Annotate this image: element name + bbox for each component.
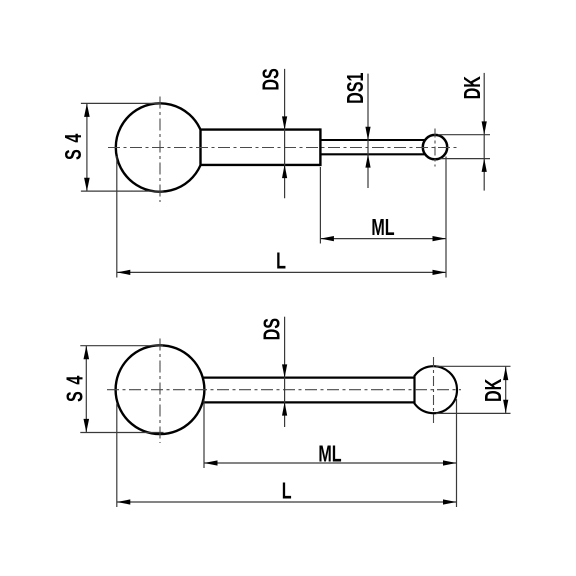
svg-text:DS: DS: [260, 318, 285, 340]
svg-text:DS: DS: [259, 68, 284, 90]
svg-text:ML: ML: [371, 216, 394, 241]
svg-text:L: L: [276, 249, 286, 274]
dimension DS1 (top figure): [343, 73, 370, 188]
svg-text:DS1: DS1: [343, 73, 368, 104]
tip ball DK (top figure): [423, 135, 447, 159]
ball S4 (top figure, clipped circle with flat at stem): [116, 103, 201, 191]
dimension DK (bottom figure): [436, 366, 511, 413]
dimension ML (top figure): [320, 157, 446, 278]
dimension DK (top figure): [438, 73, 490, 191]
svg-text:L: L: [282, 479, 292, 504]
centerline horizontal (bottom figure axis): [107, 389, 461, 391]
stem DS (bottom figure, straight shaft): [200, 378, 416, 403]
svg-text:DK: DK: [481, 378, 506, 402]
dimension DS (bottom figure): [260, 317, 287, 427]
stem DS (top figure, thick shaft): [201, 128, 321, 166]
dimension S4 (bottom figure): [63, 346, 164, 433]
svg-text:S 4: S 4: [62, 133, 87, 160]
dimension S4 (top figure): [62, 103, 164, 191]
dimension ML (bottom figure): [204, 399, 457, 507]
svg-text:ML: ML: [318, 442, 341, 467]
centerline vertical (bottom ball S4): [159, 339, 161, 444]
svg-text:DK: DK: [461, 76, 486, 100]
dimension DS (top figure): [259, 68, 287, 198]
tip ball DK (bottom figure, clipped circle with flat at stem): [415, 366, 458, 413]
dimension L (bottom figure): [117, 404, 457, 508]
centerline vertical (top tip ball DK): [434, 129, 436, 167]
ball S4 (bottom figure): [116, 345, 205, 434]
centerline vertical (bottom tip ball DK): [433, 357, 435, 423]
svg-text:S 4: S 4: [63, 375, 88, 402]
centerline vertical (top ball S4): [159, 97, 161, 203]
dimension L (top figure): [117, 156, 446, 278]
stem DS1 (top figure, thin shaft): [320, 140, 428, 154]
centerline horizontal (top figure axis): [108, 147, 457, 149]
